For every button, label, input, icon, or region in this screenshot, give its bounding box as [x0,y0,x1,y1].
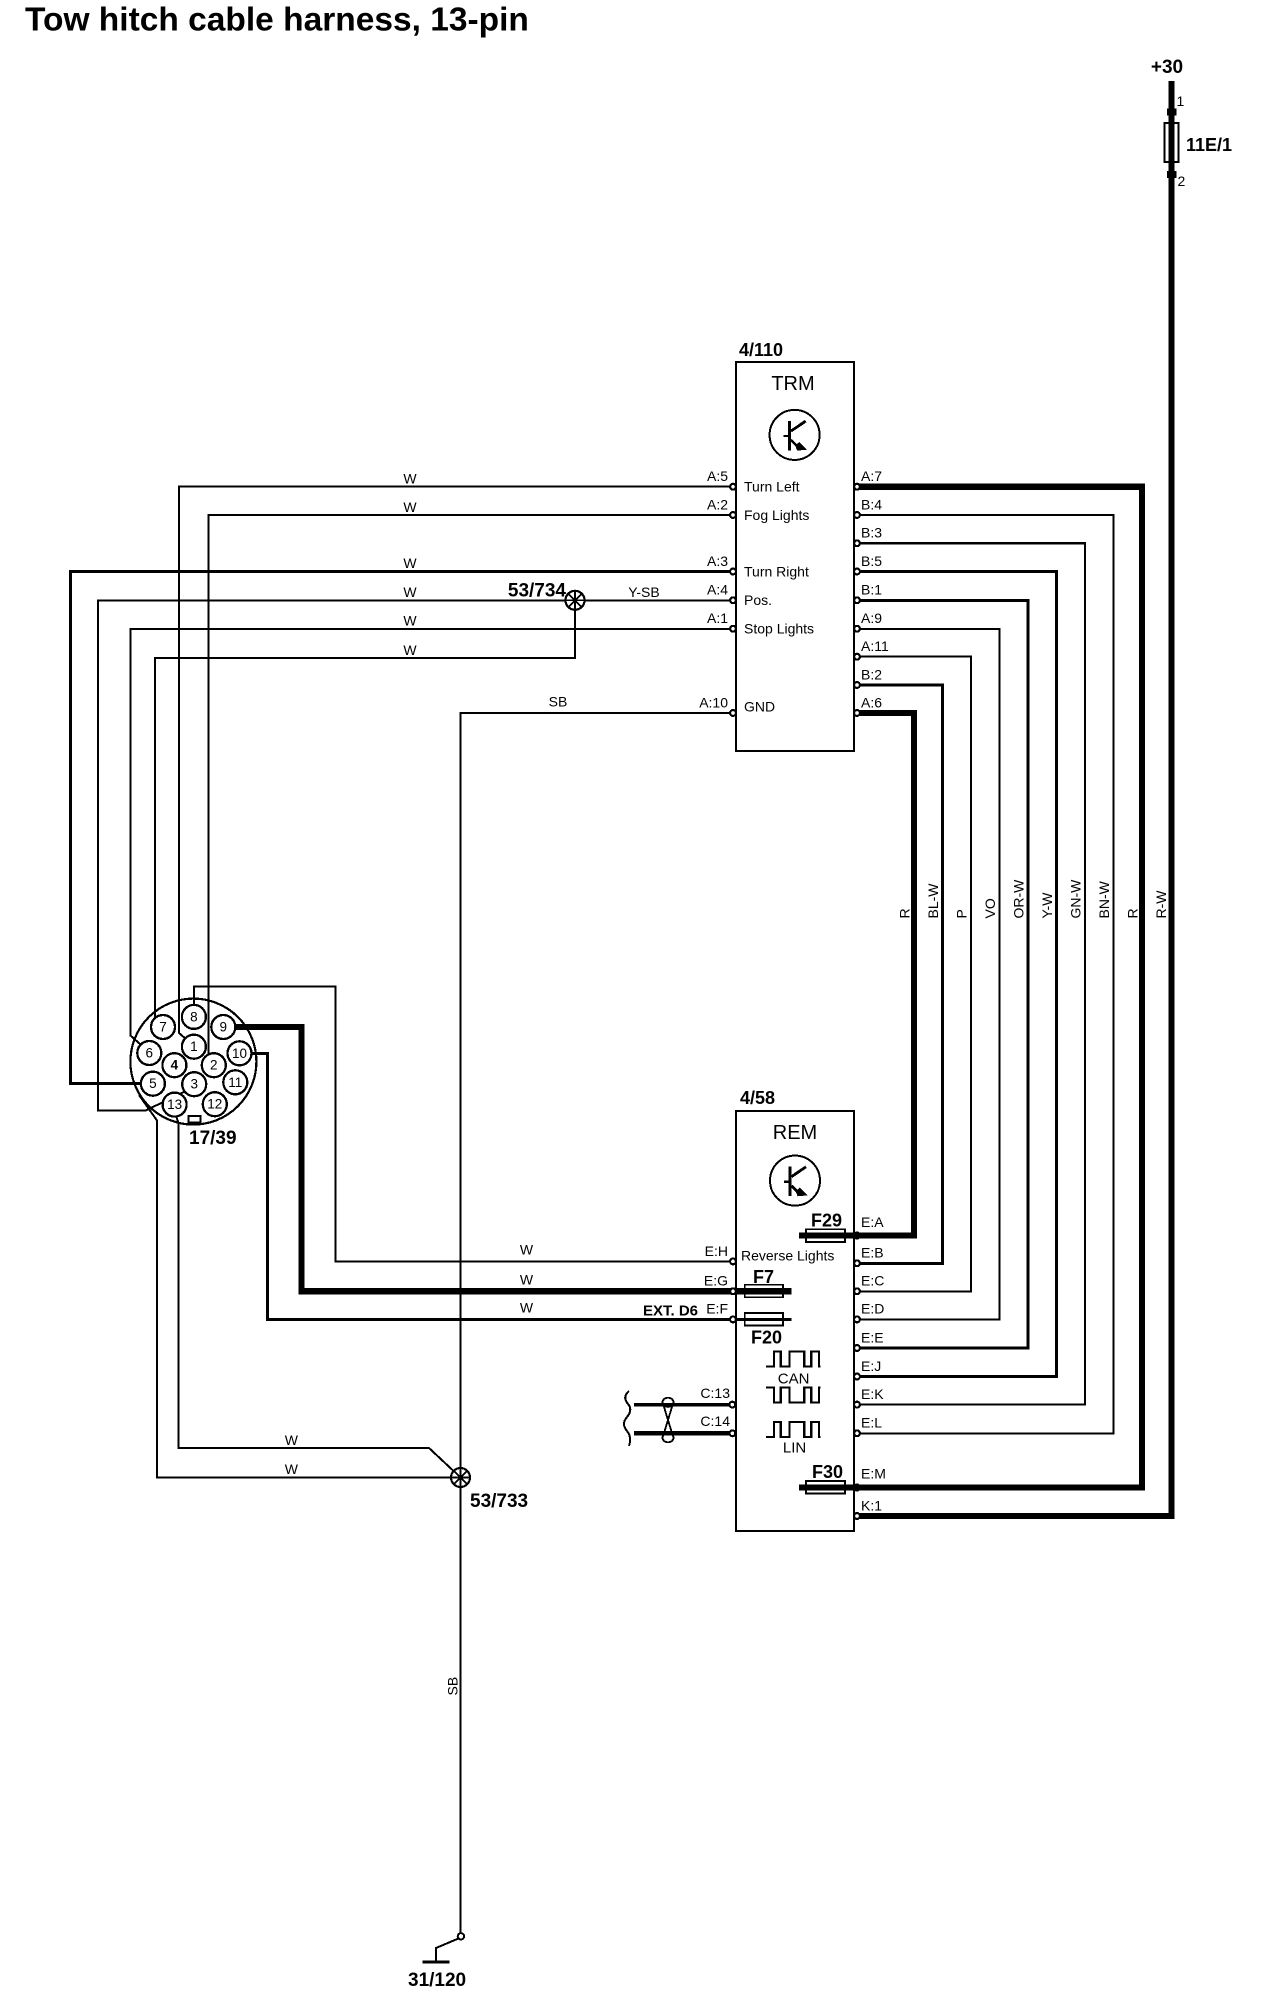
connector pin 6 [137,1041,161,1065]
twisted pair symbol [663,1398,674,1443]
svg-text:W: W [520,1271,534,1287]
wire W from TRM A:3 to connector pin 5 [71,572,737,1084]
TRM pin B:3 [854,540,860,546]
connector keying notch [189,1116,201,1123]
wire SB from TRM A:10 down to ground 31/120 [461,713,737,1934]
TRM pin A:3 [730,569,736,575]
svg-text:17/39: 17/39 [189,1128,237,1149]
svg-text:EXT. D6: EXT. D6 [643,1303,698,1320]
REM control unit K symbol [770,1156,820,1206]
svg-text:W: W [403,642,417,658]
TRM pin A:6 [854,710,860,716]
fuse F29 [806,1229,845,1242]
TRM pin A:2 [730,512,736,518]
REM pin K:1 [854,1513,860,1519]
svg-text:C:14: C:14 [700,1413,730,1429]
connector pin 2 [202,1053,226,1077]
wire R thick from TRM A:6 to REM E:A through fuse F29 [799,713,914,1236]
svg-text:E:B: E:B [861,1245,884,1261]
svg-text:5: 5 [149,1076,157,1091]
svg-text:8: 8 [190,1009,198,1024]
svg-text:F29: F29 [811,1211,842,1231]
svg-text:R-W: R-W [1153,890,1169,919]
connector pin 11 [223,1070,247,1094]
svg-text:3: 3 [190,1077,198,1092]
REM pin E:E [854,1345,860,1351]
connector pin 4 [162,1053,186,1077]
svg-text:E:L: E:L [861,1415,882,1431]
cable break squiggle [624,1391,630,1446]
svg-text:BN-W: BN-W [1096,880,1112,918]
svg-text:F7: F7 [753,1267,774,1287]
svg-text:W: W [403,555,417,571]
wire OR-W from TRM B:1 to REM E:E [854,600,1028,1348]
REM pin E:L [854,1430,860,1436]
fuse F30 [806,1481,845,1494]
svg-text:Reverse Lights: Reverse Lights [741,1247,834,1263]
svg-text:Pos.: Pos. [744,592,772,608]
svg-text:A:6: A:6 [861,694,882,710]
svg-text:Turn Right: Turn Right [744,563,809,579]
REM pin E:D [854,1317,860,1323]
TRM pin A:7 [854,484,860,490]
svg-text:53/734: 53/734 [508,581,567,602]
svg-text:W: W [403,613,417,629]
TRM pin B:5 [854,569,860,575]
svg-text:VO: VO [982,898,998,918]
svg-text:F30: F30 [812,1462,843,1482]
svg-text:E:H: E:H [705,1243,728,1259]
wire W from TRM A:2 to connector pin 2 [208,515,736,1055]
TRM box 4/110 [736,362,854,751]
svg-text:Stop Lights: Stop Lights [744,621,814,637]
svg-text:E:K: E:K [861,1386,884,1402]
connector pin 9 [211,1015,235,1039]
svg-text:A:10: A:10 [699,694,728,710]
TRM pin B:4 [854,512,860,518]
wire W from connector pin 10 to REM E:F through fuse F20 [252,1053,792,1319]
REM pin E:F [730,1317,736,1323]
TRM pin A:1 [730,626,736,632]
fuse F7 [745,1285,783,1298]
wire W from connector pin 13 to junction 53/733 lower [139,1095,461,1478]
svg-text:11: 11 [228,1075,242,1090]
svg-text:E:A: E:A [861,1214,884,1230]
svg-text:2: 2 [210,1058,218,1073]
wire W from TRM A:5 to connector pin 1 [179,487,736,1039]
wire VO from TRM A:9 to REM E:D [854,629,1000,1320]
junction 53/734 [508,581,585,610]
connector pin 10 [228,1041,252,1065]
svg-text:SB: SB [445,1677,461,1696]
svg-text:R: R [897,908,913,918]
svg-text:2: 2 [1178,173,1186,189]
svg-text:E:E: E:E [861,1329,884,1345]
svg-text:4/58: 4/58 [740,1088,775,1108]
svg-text:A:11: A:11 [861,638,889,654]
wire W from connector pin 8 to REM E:H [194,986,736,1261]
svg-text:B:4: B:4 [861,496,882,512]
svg-text:TRM: TRM [771,373,814,395]
svg-text:E:J: E:J [861,1358,881,1374]
svg-text:A:1: A:1 [707,610,728,626]
svg-text:1: 1 [190,1039,198,1054]
connector pin 8 [182,1005,206,1029]
wire BL-W from TRM B:2 to REM E:B [854,685,943,1263]
svg-text:A:3: A:3 [707,553,728,569]
LIN square wave [766,1422,821,1437]
svg-text:13: 13 [167,1097,182,1112]
svg-text:A:7: A:7 [861,468,882,484]
wire W from TRM A:1 to connector pin 6 [130,629,736,1045]
TRM pin A:4 [730,597,736,603]
svg-text:E:F: E:F [706,1301,728,1317]
REM pin E:C [854,1288,860,1294]
svg-text:REM: REM [773,1122,817,1144]
svg-text:+30: +30 [1151,57,1183,78]
wire Y-W from TRM B:5 to REM E:J [854,572,1057,1377]
wire +30 feed vertical R-W down to K:1 [854,81,1172,1516]
svg-text:E:G: E:G [704,1273,728,1289]
TRM control unit K symbol [770,410,820,460]
svg-text:A:5: A:5 [707,468,728,484]
svg-text:C:13: C:13 [700,1385,730,1401]
svg-text:E:C: E:C [861,1273,884,1289]
junction 53/733 [451,1468,528,1512]
svg-text:12: 12 [207,1097,222,1112]
svg-text:A:9: A:9 [861,610,882,626]
svg-text:P: P [954,909,970,918]
TRM pin A:11 [854,654,860,660]
wire CAN C:13 to REM [634,1403,732,1407]
svg-text:B:1: B:1 [861,582,882,598]
svg-text:BL-W: BL-W [925,883,941,919]
connector pin 13 (top copy) [163,1093,187,1117]
connector 17/39 body [130,999,256,1125]
svg-text:W: W [403,584,417,600]
pin 2 of fuse 11E/1 [1167,171,1177,178]
svg-text:R: R [1125,908,1141,918]
ground 31/120 [408,1933,466,1991]
svg-text:4/110: 4/110 [739,340,783,360]
svg-text:SB: SB [549,694,568,710]
svg-text:OR-W: OR-W [1011,879,1027,919]
svg-text:Turn Left: Turn Left [744,479,800,495]
connector pin 1 [182,1035,206,1059]
CAN square wave upper [766,1352,821,1367]
svg-text:A:2: A:2 [707,496,728,512]
REM box 4/58 [736,1111,854,1531]
svg-text:1: 1 [1177,93,1185,109]
REM pin E:J [854,1374,860,1380]
TRM pin A:9 [854,626,860,632]
svg-text:W: W [285,1461,299,1477]
svg-text:A:4: A:4 [707,582,728,598]
svg-text:LIN: LIN [783,1440,806,1457]
wire Y-SB from TRM A:4 to junction 53/734 and W onward to connector pin 3 [98,600,736,1110]
connector pin 7 [151,1015,175,1039]
svg-text:CAN: CAN [778,1370,810,1387]
svg-text:6: 6 [146,1046,154,1061]
svg-text:10: 10 [232,1046,247,1061]
svg-text:53/733: 53/733 [470,1491,528,1512]
CAN square wave lower [766,1388,821,1403]
wire W thick from connector pin 9 to REM E:G through fuse F7 [235,1027,791,1291]
connector pin 13 [163,1093,187,1117]
TRM pin A:5 [730,484,736,490]
svg-text:Fog Lights: Fog Lights [744,507,809,523]
svg-text:K:1: K:1 [861,1497,882,1513]
fuse 11E/1 [1165,123,1179,162]
REM pin C:13 [730,1402,736,1408]
svg-text:Y-W: Y-W [1039,892,1055,919]
wire P from TRM A:11 to REM E:C [854,657,971,1292]
pin 1 of fuse 11E/1 [1167,109,1177,116]
svg-text:B:2: B:2 [861,666,882,682]
connector pin 12 [203,1092,227,1116]
svg-text:E:D: E:D [861,1301,884,1317]
svg-text:W: W [285,1432,299,1448]
connector pin 5 [141,1072,165,1096]
connector pin 3 [182,1072,206,1096]
wire W from connector pin 13 to junction 53/733 upper [176,1115,461,1478]
wire R thick from TRM A:7 down to REM E:M through fuse F30 [799,487,1142,1488]
TRM pin B:2 [854,682,860,688]
REM pin E:G [730,1288,736,1294]
svg-text:B:5: B:5 [861,553,882,569]
svg-text:F20: F20 [751,1328,782,1348]
wire BN-W from TRM B:4 to REM E:L [854,515,1114,1433]
REM pin C:14 [730,1430,736,1436]
svg-text:W: W [520,1300,534,1316]
svg-text:GN-W: GN-W [1068,879,1084,919]
svg-text:7: 7 [159,1020,167,1035]
REM pin E:K [854,1402,860,1408]
svg-text:W: W [520,1242,534,1258]
wire GN-W from TRM B:3 to REM E:K [854,543,1085,1404]
svg-text:Tow hitch cable harness, 13-pi: Tow hitch cable harness, 13-pin [25,2,529,39]
fuse F20 [745,1313,783,1326]
svg-text:W: W [403,499,417,515]
svg-text:9: 9 [220,1020,228,1035]
wire CAN C:14 to REM [634,1431,732,1435]
svg-text:Y-SB: Y-SB [628,584,659,600]
svg-text:31/120: 31/120 [408,1970,466,1991]
svg-text:W: W [403,471,417,487]
REM pin E:H [730,1259,736,1265]
wire W from junction 53/734 to connector pin 7 [155,600,575,1018]
svg-text:E:M: E:M [861,1466,886,1482]
REM pin E:B [854,1260,860,1266]
svg-text:11E/1: 11E/1 [1186,135,1232,155]
TRM pin A:10 [730,710,736,716]
TRM pin B:1 [854,597,860,603]
svg-text:GND: GND [744,699,775,715]
REM pin pad E:M [854,1485,860,1491]
svg-text:4: 4 [171,1058,179,1073]
REM pin pad E:A [854,1233,860,1239]
svg-text:B:3: B:3 [861,525,882,541]
